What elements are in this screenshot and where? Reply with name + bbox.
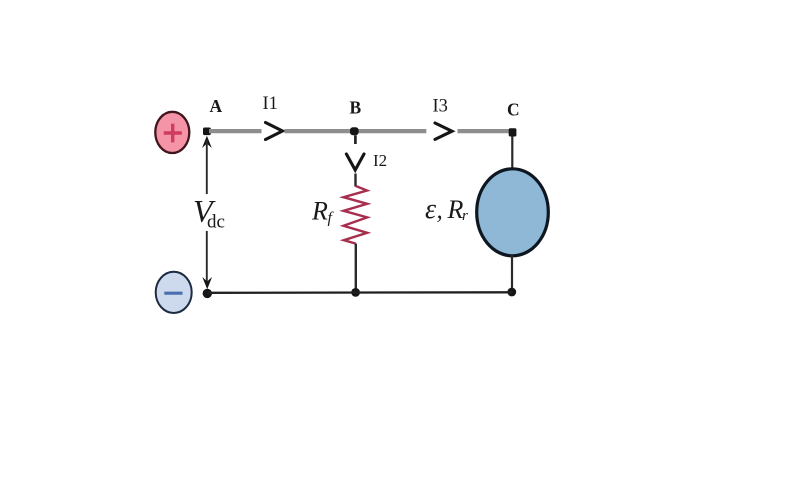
svg-text:A: A (210, 96, 223, 116)
svg-text:R: R (447, 195, 464, 224)
svg-text:I1: I1 (263, 94, 278, 114)
label I2 (373, 151, 387, 170)
Vdc measurement arrow down (above bottom-left node) (202, 231, 212, 289)
wire resistor to bottom node (355, 244, 357, 290)
label B (350, 98, 362, 118)
wire stub below node B (354, 135, 357, 144)
node B (350, 127, 359, 135)
svg-text:B: B (350, 98, 362, 118)
svg-text:R: R (311, 197, 328, 226)
svg-text:,: , (437, 197, 443, 224)
label I1 (263, 94, 278, 114)
label Vdc (193, 193, 225, 233)
current arrow I3 (435, 123, 452, 139)
Vdc measurement arrow up (under node A) (202, 136, 212, 194)
svg-text:I2: I2 (373, 151, 387, 170)
node at bottom of Rf branch (351, 288, 360, 297)
current arrow I2 (346, 154, 364, 170)
motor / EMF source (ellipse, emf and internal resistance Rr) (477, 169, 549, 256)
wire I3 arrow to C (458, 129, 511, 133)
wire motor to bottom node (511, 255, 513, 289)
svg-text:f: f (328, 210, 335, 227)
svg-text:C: C (507, 100, 520, 120)
label C (507, 100, 520, 120)
svg-text:r: r (462, 208, 468, 224)
label Rf (311, 197, 335, 227)
label I3 (433, 97, 448, 117)
svg-text:dc: dc (207, 212, 225, 233)
node A (203, 128, 211, 136)
battery positive terminal (+) (155, 112, 189, 153)
wire I1 arrow to B (285, 129, 427, 133)
node at bottom of motor branch (507, 288, 516, 297)
wire I2 arrow to resistor (354, 174, 356, 187)
bottom-left junction node (203, 289, 212, 298)
label epsilon, Rr (425, 194, 468, 225)
svg-text:ε: ε (425, 194, 436, 225)
bottom return wire (207, 291, 512, 294)
node C (509, 128, 517, 136)
resistor Rf (zigzag) (344, 186, 368, 244)
current arrow I1 (266, 123, 283, 140)
wire node C down to motor (511, 137, 513, 171)
battery negative terminal (-) (156, 272, 192, 313)
svg-text:I3: I3 (433, 97, 448, 117)
label A (210, 96, 223, 116)
wire A to I1 arrow (209, 129, 262, 133)
